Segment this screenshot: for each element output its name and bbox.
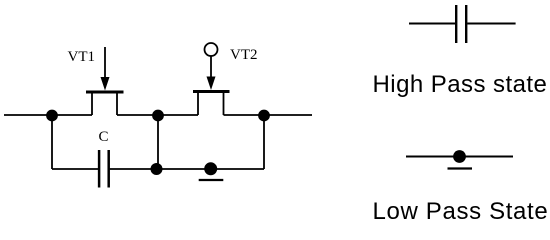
capacitor C plates xyxy=(99,150,109,188)
wire: left vertical drop from node A xyxy=(51,115,53,169)
transistor VT2 left leg xyxy=(197,92,199,116)
wire: main rail left segment xyxy=(4,114,92,116)
terminal: VT2 control input circle xyxy=(205,43,218,56)
ground: contact bar under low pass dot xyxy=(448,167,473,169)
wire: right vertical drop from node D xyxy=(263,115,265,169)
transistor VT2 gate control arrow xyxy=(207,56,216,90)
node A: left junction dot xyxy=(46,110,58,122)
capacitor: high pass state symbol plates xyxy=(456,5,466,43)
svg-text:Low Pass State: Low Pass State xyxy=(373,198,549,225)
wire: low pass legend lead xyxy=(406,156,513,158)
svg-text:C: C xyxy=(99,129,109,145)
transistor VT1 left leg xyxy=(91,92,93,115)
wire: middle vertical drop from node B xyxy=(157,115,159,169)
ground: contact bar under node F xyxy=(199,179,224,181)
wire: main rail middle segment xyxy=(117,114,198,116)
node F: switch contact dot xyxy=(204,162,217,175)
transistor VT1 right leg xyxy=(116,92,118,115)
wire: bottom branch left of capacitor xyxy=(52,168,99,170)
node D: right junction dot xyxy=(258,110,270,122)
svg-text:VT1: VT1 xyxy=(68,49,96,65)
node: low pass closed contact dot xyxy=(453,150,466,163)
wire: main rail right segment xyxy=(224,114,313,116)
svg-text:VT2: VT2 xyxy=(230,47,258,63)
wire: high pass legend left lead xyxy=(409,23,455,25)
node E: bottom middle junction dot xyxy=(151,163,163,175)
wire: bottom branch right of capacitor xyxy=(109,168,264,170)
node B: middle junction dot xyxy=(152,110,164,122)
transistor VT1 gate control arrow xyxy=(101,47,110,91)
transistor VT1 gate bar xyxy=(86,91,124,94)
wire: high pass legend right lead xyxy=(467,23,515,25)
transistor VT2 gate bar xyxy=(193,90,230,93)
svg-text:High Pass state: High Pass state xyxy=(373,71,548,98)
transistor VT2 right leg xyxy=(223,92,225,116)
